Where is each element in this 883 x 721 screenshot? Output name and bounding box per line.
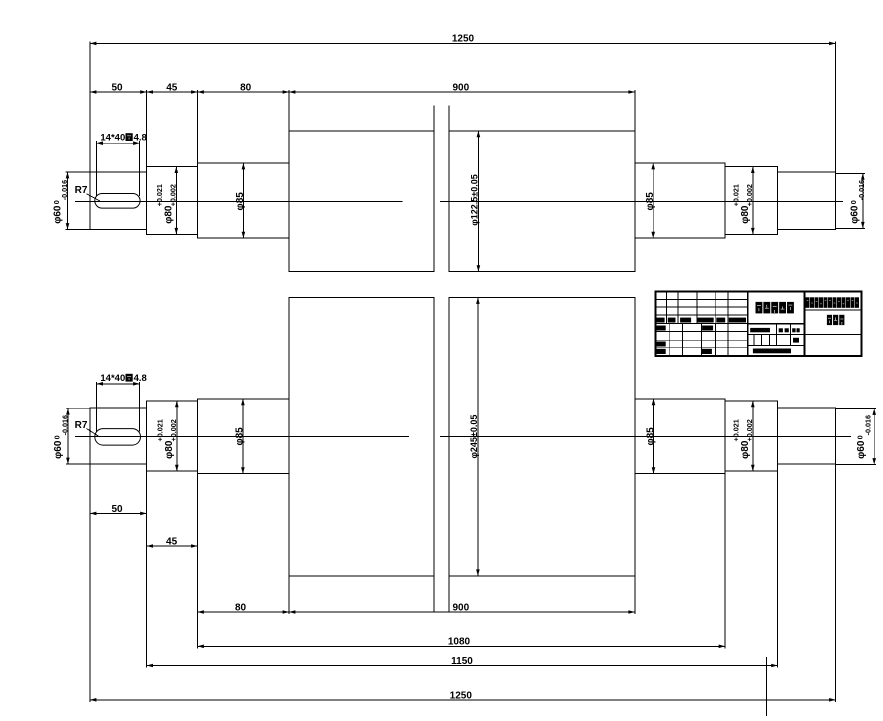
title block company name row: [806, 297, 810, 308]
bottom dim 1250: [835, 464, 837, 702]
title block row C cell text: [656, 342, 666, 347]
top shaft phi60 left section: [90, 172, 147, 230]
top dim phi85 right: [652, 163, 654, 238]
label phi245: [469, 415, 479, 459]
bottom roller gap line extensions: [433, 576, 435, 612]
svg-text:900: 900: [452, 602, 469, 613]
svg-text:φ245±0.05: φ245±0.05: [469, 415, 479, 459]
svg-text:φ60: φ60: [850, 205, 861, 224]
svg-text:-0.016: -0.016: [864, 415, 873, 435]
top roller body right half phi122.5: [449, 131, 635, 272]
title block right horizontals: [804, 309, 861, 311]
svg-text:1080: 1080: [448, 637, 471, 648]
svg-text:50: 50: [111, 82, 123, 93]
bottom shaft phi80 right section: [725, 401, 778, 471]
top shaft phi60 right section: [778, 172, 836, 230]
svg-text:φ85: φ85: [235, 192, 246, 211]
label phi85 right bottom: [645, 427, 656, 446]
title block machine name: dui gun ya hua ji: [756, 302, 763, 314]
svg-text:1250: 1250: [452, 34, 475, 45]
bottom centerline: [75, 435, 409, 437]
bottom shaft phi85 left section: [198, 399, 290, 474]
svg-text:φ60: φ60: [856, 440, 867, 459]
svg-text:φ122.5±0.05: φ122.5±0.05: [469, 174, 479, 225]
svg-text:+0.021: +0.021: [155, 419, 164, 441]
title block weight / scale tiny texts: [779, 328, 783, 332]
svg-text:80: 80: [240, 82, 252, 93]
svg-text:+0.002: +0.002: [169, 184, 178, 206]
title block middle row1 verticals: [775, 324, 777, 334]
title block part name: ya hua gun: [827, 315, 832, 325]
svg-text:+0.002: +0.002: [745, 419, 754, 441]
svg-text:R7: R7: [75, 420, 88, 431]
bottom shaft phi85 right section: [635, 399, 725, 474]
svg-text:-0.016: -0.016: [61, 415, 70, 435]
top roller body left half phi122.5: [289, 131, 434, 272]
bottom dim 45: [146, 471, 148, 667]
svg-text:φ80: φ80: [740, 440, 751, 459]
top dim phi60 left: [66, 171, 91, 173]
top dim phi80 right: [752, 167, 754, 235]
bottom dim phi80 left: [176, 401, 178, 471]
top keyway dimension 14*40 deep 4.8: [96, 141, 98, 196]
svg-text:φ60: φ60: [53, 440, 64, 459]
svg-text:1150: 1150: [451, 656, 473, 667]
svg-text:+0.021: +0.021: [732, 419, 741, 441]
label phi85 left top: [235, 192, 246, 211]
title block left grid lower verticals: [669, 324, 671, 357]
top dim phi80 left: [175, 167, 177, 235]
svg-text:45: 45: [166, 82, 178, 93]
title block material mark bar: [750, 328, 770, 332]
svg-text:φ85: φ85: [645, 427, 656, 446]
bottom dim phi85 right: [653, 399, 655, 474]
title block left grid horizontals: [655, 299, 747, 301]
top dim 900: [634, 90, 636, 131]
top dim phi60 right: [836, 172, 866, 174]
svg-text:14*40: 14*40: [100, 373, 125, 384]
title block left grid upper verticals: [666, 291, 668, 323]
bottom keyway slot: [95, 429, 141, 446]
top shaft phi80 right section: [725, 167, 778, 235]
top keyway leader R7: [87, 194, 101, 201]
bottom dim phi245: [477, 298, 479, 576]
svg-text:+0.002: +0.002: [169, 419, 178, 441]
svg-text:+0.021: +0.021: [155, 184, 164, 206]
label phi85 left bottom: [235, 427, 246, 446]
bottom shaft phi60 right section: [778, 408, 836, 464]
top keyway slot: [95, 194, 140, 209]
bottom shaft phi60 left section: [90, 408, 147, 464]
svg-text:900: 900: [452, 82, 469, 93]
svg-text:-0.016: -0.016: [857, 180, 866, 200]
bottom dim phi60 left: [66, 407, 90, 409]
svg-text:14*40: 14*40: [100, 133, 125, 144]
svg-text:4.8: 4.8: [134, 133, 147, 144]
svg-text:φ80: φ80: [163, 205, 174, 224]
bottom dim 1080: [724, 474, 726, 649]
top dim phi85 left: [242, 163, 244, 238]
svg-text:+0.002: +0.002: [745, 184, 754, 206]
bottom roller body left half phi245: [289, 298, 434, 576]
title block heavy verticals: [747, 291, 749, 356]
label phi85 right top: [645, 192, 656, 211]
title block scale value small rect: [793, 338, 799, 343]
title block middle row2 small verticals: [753, 334, 755, 345]
bottom dim 900: [634, 576, 636, 614]
bottom dim 50: [89, 464, 91, 702]
top dim 1250: [835, 42, 837, 174]
svg-text:4.8: 4.8: [134, 373, 147, 384]
bottom roller body right half phi245: [449, 298, 635, 576]
title block row A cell texts: [656, 326, 666, 331]
svg-text:50: 50: [111, 504, 123, 515]
svg-text:-0.016: -0.016: [60, 180, 69, 200]
svg-text:1250: 1250: [450, 690, 473, 701]
svg-text:80: 80: [235, 602, 247, 613]
svg-text:φ85: φ85: [645, 192, 656, 211]
top dim phi122.5: [477, 131, 479, 272]
top dim 80: [288, 90, 290, 131]
svg-text:45: 45: [166, 536, 178, 547]
svg-text:φ60: φ60: [53, 205, 64, 224]
title block row D cell texts: [656, 349, 666, 354]
svg-text:φ80: φ80: [740, 205, 751, 224]
bottom keyway dimension 14*40 deep 4.8: [96, 382, 98, 432]
top shaft phi85 right section: [635, 163, 725, 238]
label phi122.5: [469, 174, 479, 225]
top shaft phi80 left section: [147, 167, 198, 235]
title block header row texts (biaoji chushu fenqu etc): [657, 318, 665, 323]
top shaft phi85 left section: [198, 163, 290, 238]
stray extension line near title block: [766, 657, 768, 716]
top roller gap line extensions: [433, 106, 435, 131]
top dim 45: [197, 90, 199, 163]
title block middle horizontals: [748, 323, 805, 325]
svg-text:φ85: φ85: [235, 427, 246, 446]
top centerline: [75, 200, 402, 202]
bottom dim 1150: [777, 471, 779, 667]
svg-text:φ80: φ80: [164, 440, 175, 459]
bottom dim phi85 left: [242, 399, 244, 474]
top dim 50: [89, 42, 91, 173]
bottom dim phi60 right: [836, 408, 877, 410]
bottom dim 80: [197, 474, 199, 649]
title block outer border: [655, 291, 861, 356]
bottom shaft phi80 left section: [147, 401, 198, 471]
bottom dim phi80 right: [752, 401, 754, 471]
title block drawing number long bar: [753, 349, 791, 354]
svg-text:R7: R7: [75, 185, 88, 196]
svg-text:+0.021: +0.021: [732, 184, 741, 206]
bottom keyway leader R7: [87, 429, 99, 437]
